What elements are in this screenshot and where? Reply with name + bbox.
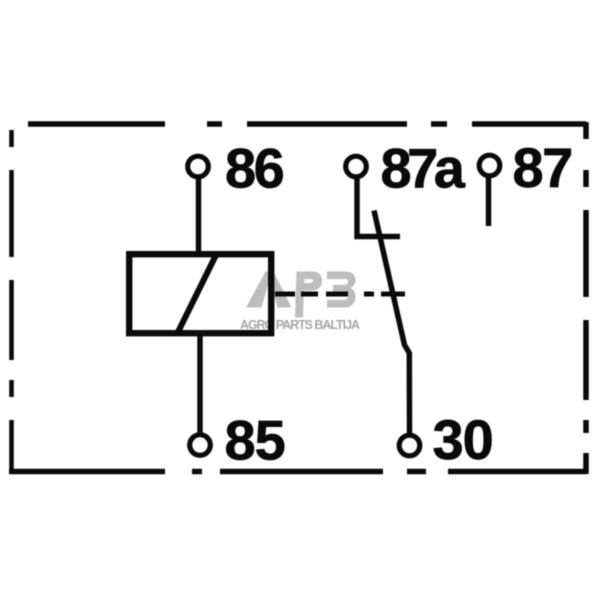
svg-text:AGRO PARTS BALTIJA: AGRO PARTS BALTIJA (240, 318, 360, 332)
svg-text:87a: 87a (381, 137, 466, 200)
svg-text:86: 86 (225, 137, 284, 200)
svg-text:87: 87 (513, 136, 572, 199)
svg-text:85: 85 (225, 409, 285, 472)
svg-text:30: 30 (433, 408, 493, 471)
